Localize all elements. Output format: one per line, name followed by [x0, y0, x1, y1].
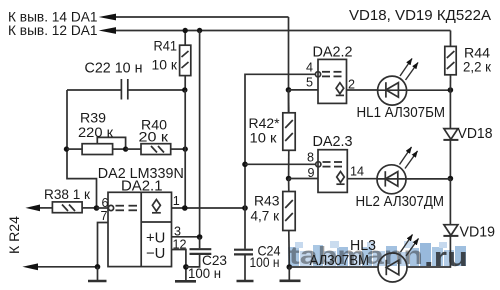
pin: inversion circle pin 6 [108, 205, 113, 210]
node: R39 left junction [64, 146, 69, 151]
svg-text:7: 7 [101, 209, 108, 223]
op-amp DA2.2 box [318, 59, 347, 103]
symbol: open-collector diamond DA2.1 [152, 200, 161, 213]
node: R41 top junction [183, 28, 188, 33]
svg-text:−U: −U [146, 246, 165, 262]
svg-text:2: 2 [348, 77, 355, 91]
svg-text:1: 1 [173, 194, 180, 208]
LED HL1 [378, 59, 418, 106]
op-amp DA2.1 box [108, 192, 172, 266]
svg-text:220 к: 220 к [78, 124, 114, 140]
svg-text:HL1 АЛ307БМ: HL1 АЛ307БМ [357, 105, 446, 121]
svg-text:9: 9 [308, 166, 315, 180]
node: R40 right junction on rail C [183, 146, 188, 151]
diode VD18 [443, 129, 458, 179]
svg-text:4,7 к: 4,7 к [251, 207, 280, 223]
symbol: open-collector diamond DA2.2 [336, 83, 344, 96]
svg-text:8: 8 [307, 151, 314, 165]
symbol: open-collector diamond DA2.3 [336, 172, 344, 185]
capacitor C22 [67, 79, 185, 100]
wire: pin 9 stub [289, 178, 318, 180]
svg-text:5: 5 [306, 75, 313, 89]
wire: HL2 to rail E [406, 178, 450, 180]
wire: pin 6 stub [97, 207, 109, 209]
node: R43/HL3 junction [287, 264, 293, 270]
wire: rail B from line2 down to pin3 [199, 31, 201, 238]
symbol: comparator == in DA2.2 [322, 72, 342, 77]
node: rail C to pin1 [182, 205, 188, 211]
wire: line to pin 14 DA1 (top rail 1) [99, 14, 289, 21]
svg-text:VD18, VD19 КД522А: VD18, VD19 КД522А [349, 7, 491, 24]
resistor R42 [283, 90, 295, 179]
wire: HL1 to rail E [407, 89, 451, 91]
pin: inversion circle pin 4 [315, 72, 320, 77]
resistor R38 [25, 202, 96, 213]
wire: pin 7 stub and down to K R24 node [98, 223, 109, 267]
svg-text:14: 14 [350, 165, 364, 179]
svg-text:100 н: 100 н [188, 265, 221, 281]
node: rail D to pin1 [242, 205, 248, 211]
svg-text:С22 10 н: С22 10 н [85, 61, 143, 77]
symbol: comparator == in DA2.3 [323, 162, 343, 167]
node: C22 to rail C junction [182, 87, 187, 92]
node: pin3 / C23 junction [197, 234, 203, 240]
wire: rail D (pin4/pin8 net) [245, 74, 315, 208]
node: HL2/rail E junction [448, 176, 454, 182]
node: K R24 junction [95, 264, 101, 270]
svg-text:DA2.1: DA2.1 [121, 179, 163, 195]
svg-text:R41: R41 [154, 38, 178, 54]
symbol: comparator == in DA2.1 [116, 206, 138, 211]
wire: pin 8 stub [245, 163, 316, 165]
svg-text:R43: R43 [254, 192, 280, 208]
resistor R41 [180, 31, 191, 91]
capacitor C24 [234, 208, 253, 281]
resistor R43 [283, 179, 295, 268]
wire: rail E down and left to HL3 [407, 236, 450, 267]
svg-text:VD19: VD19 [460, 224, 496, 240]
wire: R43 node to HL3 [289, 266, 378, 268]
node: rail B top junction [197, 28, 202, 33]
wire: pin 14 output to HL2 [347, 178, 377, 180]
node: pin5 tap on rail A [286, 87, 292, 93]
svg-text:VD18: VD18 [458, 126, 493, 142]
ground under K R24 node [88, 267, 107, 281]
watermark tabmann.ru [288, 241, 468, 272]
wire: line to pin 12 DA1 (top rail 2) [99, 27, 451, 34]
wire: pin 1 output line [172, 207, 246, 209]
wire: left rail down to R38 node [67, 90, 97, 208]
node: R42/R43/pin9 junction [286, 176, 292, 182]
ground under pin 12 [175, 280, 196, 283]
wire: pin 5 stub [289, 89, 319, 91]
wire: vertical rail from line1 down to R42 / pin5 [288, 17, 290, 113]
pin: inversion circle pin 8 [316, 162, 321, 167]
svg-text:АЛ307ВМ: АЛ307ВМ [310, 253, 370, 269]
diode VD19 [443, 225, 458, 236]
capacitor C23 [186, 237, 211, 267]
node: HL1/rail E junction [448, 87, 454, 93]
svg-text:DA2.2: DA2.2 [313, 44, 353, 60]
resistor R44 [445, 31, 456, 91]
svg-text:100 н: 100 н [250, 254, 280, 270]
resistor R40 [126, 144, 186, 155]
wire: K R24 line with arrow [22, 263, 97, 270]
svg-text:DA2.3: DA2.3 [313, 134, 353, 150]
svg-text:10 к: 10 к [152, 57, 178, 73]
svg-text:4: 4 [306, 61, 313, 75]
svg-text:+U: +U [146, 231, 165, 247]
svg-text:HL3: HL3 [350, 238, 376, 254]
node: pin6 / R38 junction [94, 205, 100, 211]
node: C23 bottom junction [183, 264, 189, 270]
resistor R39 with tap [67, 137, 126, 154]
node: pin8 tap on rail D [242, 162, 248, 168]
op-amp DA2.3 box [318, 150, 347, 193]
ground under R43 node [280, 267, 301, 281]
svg-text:HL2 АЛ307ДМ: HL2 АЛ307ДМ [356, 194, 445, 210]
svg-text:20 к: 20 к [139, 130, 169, 146]
svg-text:10 к: 10 к [250, 130, 278, 146]
node: R39/R40 junction [123, 146, 128, 151]
svg-text:К выв. 12 DA1: К выв. 12 DA1 [8, 23, 98, 38]
LED HL3 [378, 235, 419, 283]
svg-text:3: 3 [174, 224, 181, 238]
LED HL2 [377, 147, 418, 194]
wire: pin 3 stub [172, 236, 200, 238]
svg-text:К R24: К R24 [7, 215, 22, 254]
wire: pin 12 stub down to ground [172, 250, 186, 282]
wire: pin 2 output to HL1 [347, 89, 378, 91]
svg-text:R38 1 к: R38 1 к [44, 186, 91, 202]
ground under C24 [237, 280, 254, 283]
svg-text:2,2 к: 2,2 к [463, 58, 492, 74]
wire: rail E from HL2 down to VD19 [449, 179, 451, 225]
svg-text:12: 12 [173, 238, 187, 252]
wire: rail E from HL1 down to VD18 [449, 90, 451, 129]
wire: rail C from C22 down to pin1 line [184, 90, 186, 208]
